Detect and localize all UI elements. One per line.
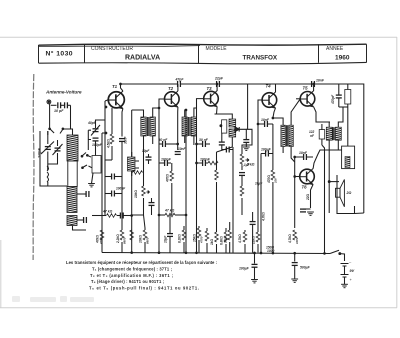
vertical x159 down	[158, 108, 160, 253]
osc coil caps	[146, 157, 152, 160]
svg-text:4,7kΩ: 4,7kΩ	[262, 212, 266, 222]
resistor col x207	[205, 231, 209, 241]
osc feedback cap 2	[105, 193, 111, 195]
svg-text:2Ω: 2Ω	[346, 191, 352, 195]
wire cap down to coil node	[70, 105, 72, 129]
vertical x324.5 from transformer area down	[322, 145, 325, 253]
header table	[39, 44, 367, 64]
rod tap 2	[77, 219, 83, 221]
cap 10nF T2	[175, 152, 181, 155]
T5 base wire	[296, 98, 300, 100]
osc switch box	[92, 156, 101, 174]
svg-text:Les transistors équipent ce ré: Les transistors équipent ce récepteur se…	[66, 260, 217, 265]
osc resistor	[133, 171, 143, 175]
osc switch contact 1	[82, 153, 91, 158]
capacitor 10pF antenna (series pair)	[51, 104, 57, 106]
T1 emitter chain	[121, 109, 124, 137]
T1 collector to top rail	[121, 84, 123, 91]
IF can box detector	[222, 120, 227, 133]
col x226 resistor	[224, 232, 228, 242]
svg-text:50 nF: 50 nF	[159, 138, 169, 142]
wire antenna jack down	[49, 104, 51, 129]
svg-text:T₂ et T₃ (amplification M.F.): T₂ et T₃ (amplification M.F.) : 36T1 ;	[90, 273, 173, 278]
svg-text:500µF: 500µF	[300, 266, 311, 270]
T6 base wire	[295, 176, 300, 178]
ferrite rod coil winding 3	[67, 216, 77, 226]
electrolytic 100uF bottom	[254, 253, 256, 264]
resistor col x122	[120, 230, 124, 240]
svg-text:T3: T3	[207, 86, 213, 91]
T1 base wire	[105, 100, 108, 101]
vertical x258	[257, 110, 259, 228]
switch bottom	[330, 250, 339, 253]
svg-text:N° 1030: N° 1030	[46, 50, 73, 58]
resistor box right	[345, 90, 351, 105]
resistor 4.5k emitter	[110, 134, 114, 144]
cap 10nF T4	[265, 121, 268, 127]
osc section wires	[96, 120, 106, 124]
svg-text:30 nF: 30 nF	[199, 138, 209, 142]
MF transformer 3	[229, 119, 236, 127]
T4 collector wire	[275, 84, 277, 92]
MF3 bottom hook	[217, 147, 233, 152]
svg-text:T₁ (changement de fréquence): T₁ (changement de fréquence) : 37T1 ;	[92, 267, 172, 272]
transistor T4	[262, 92, 277, 108]
svg-text:TRANSFOX: TRANSFOX	[243, 54, 278, 61]
cap 470pF right	[336, 95, 342, 98]
trimmer	[57, 140, 59, 146]
battery 9V	[341, 264, 349, 278]
transistor T1	[108, 91, 124, 109]
svg-text:2,2kΩ: 2,2kΩ	[116, 234, 120, 244]
ground 100uF	[251, 280, 258, 283]
transistor T2	[165, 91, 180, 107]
transistor T6	[300, 169, 315, 185]
svg-text:10nF: 10nF	[299, 151, 308, 155]
svg-text:4,7kΩ: 4,7kΩ	[238, 234, 242, 244]
speaker enclosure lines	[337, 175, 355, 214]
T2 collector wire	[177, 84, 179, 91]
wire left loop	[40, 131, 67, 186]
svg-text:4700: 4700	[200, 236, 204, 244]
junction dots on bus	[105, 106, 107, 108]
svg-text:Antenne-Voiture: Antenne-Voiture	[45, 90, 82, 95]
long vertical line x105	[104, 101, 106, 216]
page scan edges	[0, 37, 397, 308]
page fold dark line left	[32, 74, 35, 260]
output box	[342, 146, 355, 169]
svg-text:RADIALVA: RADIALVA	[125, 54, 160, 61]
small box left of transformer	[319, 130, 325, 139]
svg-text:T2: T2	[168, 86, 174, 91]
osc feedback cap 1	[105, 176, 111, 178]
cap 100nF row	[159, 162, 164, 164]
MF transformer 1	[141, 117, 146, 136]
capacitor 100pF osc	[93, 138, 99, 141]
rod top lead	[63, 129, 73, 135]
svg-text:470Ω: 470Ω	[267, 175, 271, 184]
svg-text:100: 100	[274, 178, 278, 183]
rail drop to detector	[247, 84, 249, 129]
svg-text:100pF: 100pF	[92, 143, 103, 147]
osc switch contact 2	[83, 165, 93, 168]
cap 50nF row	[159, 143, 162, 145]
speaker	[329, 181, 339, 183]
svg-text:4,5kΩ: 4,5kΩ	[107, 139, 111, 149]
svg-text:T6: T6	[302, 185, 308, 190]
resistor col x131.7 label	[130, 230, 134, 240]
rail capacitor 10nF	[312, 81, 315, 87]
rod bottom lead	[73, 226, 87, 231]
T6 emitter wire	[311, 184, 314, 208]
svg-text:100nF: 100nF	[116, 187, 126, 191]
cap 100uF T4	[266, 151, 269, 157]
svg-text:100nF: 100nF	[161, 158, 172, 162]
switch contact	[48, 129, 63, 136]
col x229.7	[228, 230, 232, 240]
cap 30nF T3 row	[197, 143, 203, 145]
vertical x131.7	[131, 110, 133, 253]
T4 emitter wire	[273, 108, 276, 118]
svg-text:0,1µF: 0,1µF	[241, 163, 251, 167]
resistor col x143.5	[143, 230, 147, 240]
detector cap to ground	[243, 140, 249, 143]
svg-text:10µF: 10µF	[224, 235, 228, 243]
rail capacitor 2	[217, 81, 220, 87]
svg-text:15kΩ: 15kΩ	[193, 234, 197, 242]
svg-text:22kΩ: 22kΩ	[252, 236, 256, 245]
T6 collector wire	[313, 150, 338, 169]
variable capacitor 240pF	[47, 131, 49, 144]
ground 500uF	[291, 279, 298, 282]
svg-text:100µF: 100µF	[261, 148, 272, 152]
cap 10nF T6	[304, 154, 307, 160]
T2 emitter wire	[177, 107, 179, 112]
svg-text:470pF: 470pF	[331, 94, 335, 105]
svg-text:10nF: 10nF	[316, 79, 325, 83]
svg-text:30nF: 30nF	[124, 136, 128, 144]
vertical x144	[143, 142, 145, 186]
phase transformer	[326, 127, 332, 140]
vertical x196.5	[196, 108, 198, 253]
svg-text:MODELE: MODELE	[206, 46, 228, 52]
diode detector	[234, 128, 239, 130]
resistor 4,7k col x294.7	[293, 230, 297, 240]
MF transformer 2	[182, 117, 187, 136]
T5 emitter wire	[314, 107, 330, 122]
T3 base wire	[197, 99, 204, 108]
svg-text:10µF: 10µF	[164, 235, 168, 243]
svg-text:10kΩ: 10kΩ	[139, 235, 143, 243]
detector electrolytic	[219, 142, 225, 145]
resistor col x199	[197, 228, 201, 238]
vertical x294.7	[294, 157, 296, 228]
T2 emitter down	[177, 112, 179, 150]
T2 base wire	[159, 99, 164, 108]
svg-text:9V: 9V	[350, 269, 355, 273]
svg-text:10µF: 10µF	[255, 182, 263, 186]
svg-text:T₅ et T₆ (push-pull final) :: T₅ et T₆ (push-pull final) : 941T1 ou 90…	[89, 286, 199, 291]
svg-text:6800: 6800	[123, 237, 127, 244]
svg-text:T4: T4	[266, 84, 272, 89]
svg-text:47 kΩ: 47 kΩ	[102, 210, 113, 214]
ferrite rod coil winding 1	[67, 135, 78, 161]
top rail	[121, 83, 178, 85]
column x216.5 AVC resistor	[216, 152, 218, 170]
svg-text:1960: 1960	[335, 55, 350, 62]
svg-text:10nF: 10nF	[261, 118, 270, 122]
col x258	[256, 232, 260, 242]
svg-text:CONSTRUCTEUR: CONSTRUCTEUR	[91, 46, 133, 52]
svg-text:100µF: 100µF	[239, 267, 250, 271]
svg-text:47pF: 47pF	[175, 77, 185, 81]
ferrite rod bare section	[68, 161, 77, 187]
svg-text:10 pF: 10 pF	[54, 109, 64, 113]
transistor T5	[300, 91, 315, 107]
cap 10nF left pot	[149, 203, 155, 206]
oscillator coil block	[128, 157, 136, 171]
resistor det lower	[240, 186, 244, 196]
rail capacitor 1	[178, 81, 181, 87]
svg-text:4,7kΩ: 4,7kΩ	[288, 234, 292, 244]
svg-text:1000: 1000	[295, 237, 299, 244]
T1 emitter res bottom hook	[105, 159, 112, 161]
resistor col x102	[100, 230, 104, 240]
svg-text:1kΩ: 1kΩ	[210, 238, 214, 245]
T3 collector wire	[216, 84, 218, 91]
svg-text:6800: 6800	[146, 237, 150, 244]
svg-text:47 kΩ: 47 kΩ	[164, 209, 175, 213]
svg-text:10µF: 10µF	[142, 149, 150, 153]
svg-text:10kΩ: 10kΩ	[134, 190, 138, 198]
cap 30nF emitter	[119, 139, 125, 142]
AVC electrolytic col x252.6	[252, 212, 254, 222]
ferrite rod coil winding 2	[67, 187, 77, 213]
volume pot 5k	[240, 154, 244, 164]
ground detector	[243, 147, 250, 150]
ghost bleedthrough marks	[12, 296, 94, 302]
row y=215 resistors	[92, 215, 106, 217]
T3 emitter wire	[215, 107, 218, 114]
T4 emitter resistor 470 column	[272, 124, 274, 170]
svg-text:100nF: 100nF	[200, 158, 211, 162]
cap+res row2 T3	[203, 160, 206, 166]
col x245	[243, 232, 247, 242]
coil L antenna small	[47, 166, 49, 182]
svg-text:470Ω: 470Ω	[166, 174, 170, 183]
cap 0.1uF det	[239, 173, 245, 176]
rod tap 1	[77, 193, 86, 195]
electrolytic 500uF bottom	[294, 253, 296, 262]
vertical x186	[185, 110, 187, 253]
transistor T3	[204, 91, 219, 107]
svg-text:8,2kΩ: 8,2kΩ	[178, 234, 182, 243]
T5 collector wire	[313, 84, 315, 91]
svg-text:22Ω: 22Ω	[306, 193, 310, 201]
antenna jack	[47, 100, 51, 104]
svg-text:T₄ (étage driver) : 941T1 ou: T₄ (étage driver) : 941T1 ou 901T1 ;	[91, 279, 164, 284]
volume pot 10k left	[142, 186, 146, 196]
svg-text:ANNEE: ANNEE	[326, 46, 344, 52]
T4 base wire	[258, 100, 262, 110]
resistor col x184	[182, 230, 186, 240]
driver transformer	[281, 125, 285, 146]
ground battery	[341, 284, 348, 287]
svg-text:4700: 4700	[99, 237, 103, 245]
resistor 470 vertical	[170, 171, 174, 181]
long vertical x102	[101, 133, 103, 253]
svg-text:T1: T1	[112, 84, 118, 89]
bottom text block	[66, 260, 217, 290]
svg-text:22pF: 22pF	[214, 77, 224, 81]
svg-text:T5: T5	[303, 86, 309, 91]
electrolytic 10uF x170	[167, 234, 173, 237]
svg-text:10nF: 10nF	[178, 147, 186, 151]
bottom bus	[102, 253, 330, 254]
ground osc	[88, 184, 95, 187]
